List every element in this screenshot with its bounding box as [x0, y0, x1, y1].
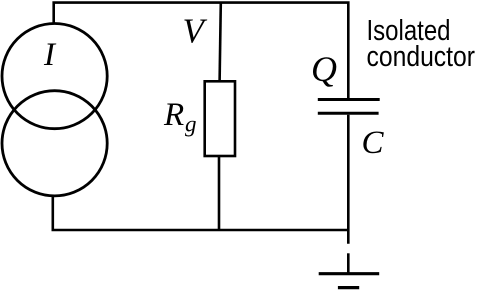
current source I (two overlapping circles) [2, 24, 107, 196]
wire: vertical from top rail down to resistor (node V) [220, 3, 221, 82]
wire: resistor bottom to bottom rail [218, 156, 221, 230]
label V [183, 11, 208, 50]
ground [319, 274, 380, 288]
svg-text:conductor: conductor [367, 41, 476, 73]
wire: current source bottom riser and bottom rail [53, 196, 349, 230]
label I [43, 37, 57, 73]
svg-text:R: R [163, 97, 184, 133]
svg-text:I: I [43, 37, 57, 73]
svg-text:C: C [362, 125, 385, 161]
resistor Rg (box) [205, 81, 235, 156]
capacitor C plates [318, 100, 380, 114]
label Q [311, 49, 337, 89]
label Isolated conductor [367, 15, 476, 73]
svg-text:Q: Q [311, 49, 337, 89]
svg-text:g: g [185, 112, 197, 137]
wire: capacitor bottom plate down through bottom rail junction [347, 115, 350, 244]
label Rg [163, 97, 197, 136]
wire: stub from gap to ground [347, 253, 350, 273]
svg-text:V: V [183, 11, 208, 50]
wire: top-left riser from current source to top rail, top rail, and right drop to capacitor [54, 3, 349, 99]
label C [362, 125, 385, 161]
